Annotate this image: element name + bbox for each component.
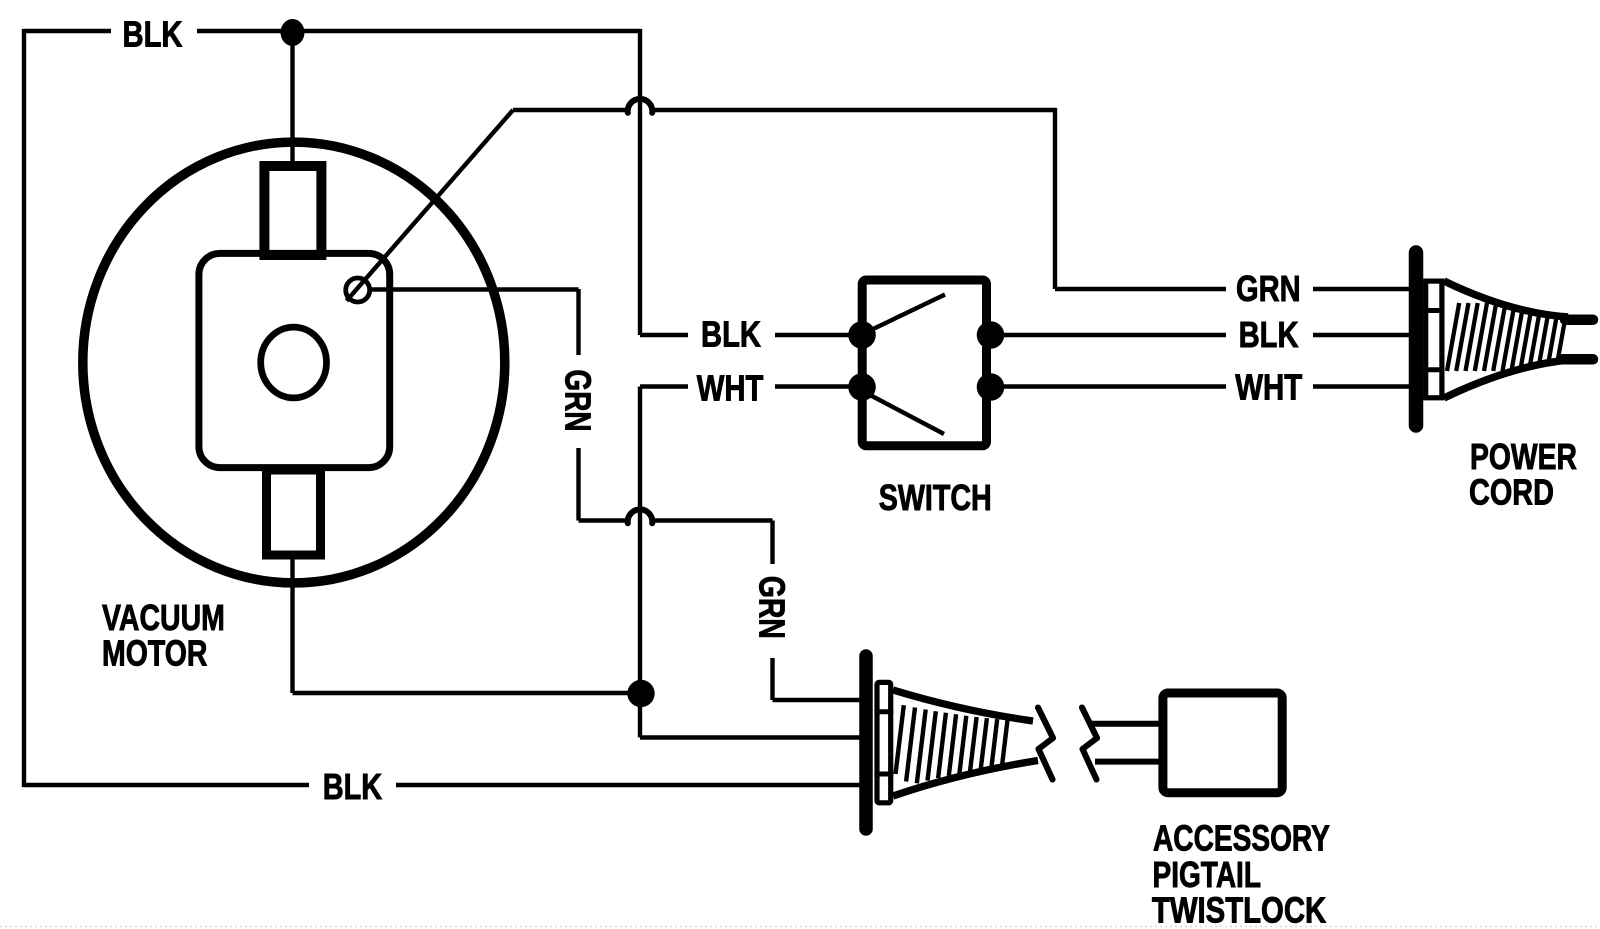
svg-text:BLK: BLK — [123, 13, 183, 54]
power cord strain relief top outline — [1444, 281, 1568, 317]
power cord plug body cells — [1426, 281, 1442, 398]
vacuum motor center hole — [261, 327, 327, 398]
accessory pigtail strain relief top outline — [893, 690, 1033, 721]
switch terminal dots — [848, 321, 876, 349]
svg-text:TWISTLOCK: TWISTLOCK — [1152, 890, 1327, 929]
accessory twistlock box — [1163, 693, 1282, 793]
wire pigtail to twistlock lower — [1095, 759, 1160, 765]
power cord cable stubs — [1565, 314, 1593, 325]
cable break zigzag left — [1038, 708, 1053, 780]
vacuum motor top terminal block — [264, 166, 321, 255]
wire diagonal from motor screw terminal — [347, 110, 514, 301]
svg-text:GRN: GRN — [1236, 268, 1301, 309]
svg-text:WHT: WHT — [697, 367, 764, 408]
wire switch right BLK to power cord — [991, 333, 1226, 337]
wire GRN2 to pigtail — [773, 698, 862, 702]
wire vertical x=640 lower segment — [638, 387, 642, 738]
vacuum motor inner rounded square — [199, 253, 390, 467]
svg-text:VACUUM: VACUUM — [102, 598, 225, 638]
wire left vertical BLK — [22, 29, 26, 787]
accessory pigtail strain relief bottom outline — [893, 761, 1038, 797]
svg-text:BLK: BLK — [1239, 314, 1299, 355]
node junction dot top — [281, 19, 305, 46]
cable break zigzag right — [1082, 708, 1097, 780]
wire from screw terminal horizontal — [370, 287, 579, 291]
svg-text:MOTOR: MOTOR — [102, 633, 207, 673]
wire GRN down to power cord row — [1053, 108, 1057, 289]
vacuum motor screw terminal — [346, 278, 370, 302]
svg-text:GRN: GRN — [752, 576, 792, 639]
wire GRN top horizontal with hop — [513, 108, 628, 112]
vacuum motor bottom terminal block — [267, 470, 321, 555]
svg-text:CORD: CORD — [1469, 471, 1554, 512]
wire GRN lower horizontal with hop — [579, 518, 629, 522]
accessory pigtail strain relief hatching — [896, 705, 904, 774]
accessory pigtail plug body cells — [877, 682, 891, 802]
vacuum motor body circle — [83, 142, 505, 583]
wire hop over x=640 lower — [628, 509, 653, 523]
wire WHT row to switch — [640, 384, 688, 388]
scan artifact bottom edge — [0, 926, 1600, 928]
wire GRN2 vertical — [770, 521, 774, 565]
wire to accessory pigtail middle — [640, 735, 861, 739]
power cord strain relief bottom outline — [1444, 360, 1568, 398]
wire BLK row to switch — [640, 333, 688, 337]
power cord strain relief hatching — [1447, 303, 1459, 371]
wire switch right WHT to power cord — [991, 384, 1226, 388]
switch pole upper contact blade — [871, 295, 945, 331]
accessory pigtail plug face plate — [859, 656, 873, 829]
power cord plug face plate — [1409, 253, 1424, 426]
wire from top junction to motor upper terminal — [290, 33, 294, 170]
wire GRN1 vertical — [576, 289, 580, 355]
svg-text:SWITCH: SWITCH — [879, 478, 992, 518]
svg-text:WHT: WHT — [1235, 367, 1302, 408]
svg-text:BLK: BLK — [701, 314, 761, 355]
svg-text:GRN: GRN — [558, 370, 598, 432]
switch pole lower contact blade — [870, 395, 944, 434]
wire pigtail to twistlock upper — [1092, 721, 1160, 727]
wire vertical x=640 upper segment — [638, 29, 642, 335]
wire hop over x=640 top — [628, 99, 653, 113]
node junction dot bottom — [627, 680, 654, 707]
svg-text:BLK: BLK — [323, 766, 383, 807]
svg-text:ACCESSORY: ACCESSORY — [1153, 818, 1330, 858]
wire bottom BLK horizontal — [24, 783, 309, 787]
wire motor bottom to junction — [290, 556, 294, 693]
switch S1 box — [862, 280, 986, 446]
wire top BLK horizontal — [24, 29, 111, 33]
